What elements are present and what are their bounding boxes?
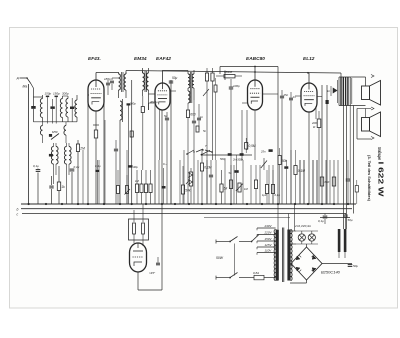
cathode resistor 200 (315, 106, 317, 119)
heater wires to lamps (290, 230, 296, 232)
svg-text:50k: 50k (282, 159, 288, 163)
bus line c (ground rail) (22, 213, 346, 215)
choke connect bottom (338, 252, 340, 258)
small cap mid (114, 148, 118, 150)
EL12 right side wire (317, 96, 322, 98)
cap between filters (71, 98, 73, 107)
EAF42 top plate wire (162, 71, 164, 83)
bridge DC output (322, 263, 352, 265)
svg-text:1M: 1M (135, 179, 140, 183)
EABC80 left side exit wire (242, 102, 248, 104)
right components row (299, 160, 301, 204)
cap near oscillator (51, 176, 53, 185)
small resistors left of EABC80 (205, 73, 208, 81)
output transformer bottom connection (339, 105, 366, 107)
svg-text:220V: 220V (264, 231, 273, 235)
power transformer secondary winding (287, 230, 290, 281)
IF2 secondary down wire (148, 96, 150, 110)
heater verticals above transformer (277, 204, 279, 229)
svg-text:0,1μ: 0,1μ (33, 164, 39, 168)
svg-text:110V: 110V (265, 249, 273, 253)
svg-text:0,8A: 0,8A (253, 271, 259, 275)
svg-text:1n: 1n (327, 89, 331, 93)
svg-text:1k: 1k (61, 185, 65, 189)
cap 1n right (289, 97, 293, 99)
svg-text:b: b (17, 208, 19, 212)
output transformer winding block (340, 77, 341, 106)
oscillator transformer B (64, 147, 66, 165)
boost cap diode (333, 88, 337, 93)
output transformer top connection (340, 73, 342, 77)
pot arrow 1M upper (263, 158, 265, 170)
svg-text:600: 600 (325, 180, 330, 184)
detector resistor 25k (214, 85, 217, 92)
cap 100p (229, 86, 233, 88)
padder resistor 2M (76, 144, 79, 152)
voltage selector taps (257, 227, 276, 229)
cap at magic eye (156, 262, 160, 264)
vacuum tube EABC80 (248, 80, 263, 110)
EAF42 grid wire (149, 93, 156, 95)
svg-text:50μ: 50μ (172, 76, 178, 80)
cap 0,1u left (37, 167, 39, 170)
volume potentiometer (190, 168, 192, 172)
svg-text:2×6,3V0,3A: 2×6,3V0,3A (294, 224, 311, 228)
svg-text:125V: 125V (265, 243, 273, 247)
oscillator transformer A (51, 147, 53, 165)
phono input terminals (188, 173, 193, 178)
EL12 screen wires (321, 85, 323, 204)
EABC80 diode wires (246, 110, 248, 150)
IF transformer 1 core (121, 72, 123, 92)
IF transformer 2 primary (143, 73, 145, 90)
svg-text:EAF42: EAF42 (156, 56, 171, 62)
mains switch pole 2 (215, 276, 217, 280)
svg-text:0,1μ: 0,1μ (95, 164, 101, 168)
speaker 1 terminals (371, 75, 374, 78)
EAF42 left exit 2 (149, 102, 156, 104)
speaker 2 wires (357, 108, 371, 110)
plate circuit top line 2 (225, 70, 233, 72)
coil below IF1 (120, 101, 122, 120)
speaker 2 (362, 118, 370, 132)
long B+ top line (126, 71, 341, 74)
resistor 5k (221, 170, 223, 184)
resistor under IF2 (141, 107, 144, 113)
IF transformer 3 core (190, 72, 192, 103)
EAF42 cathode down (161, 110, 163, 204)
bridge rectifier diamond (291, 247, 322, 280)
bridge AC input top (306, 244, 308, 247)
svg-text:50μ: 50μ (348, 218, 353, 222)
svg-text:0,1μ: 0,1μ (275, 193, 281, 197)
svg-text:100p: 100p (130, 102, 137, 106)
cap 2k300p dark (240, 153, 244, 156)
IF transformer 1 primary (119, 74, 121, 90)
EF43 plate top wire (95, 73, 97, 81)
EABC80 right vertical wire (277, 67, 279, 205)
lamp wiring (296, 230, 318, 232)
svg-text:30μ: 30μ (133, 165, 138, 169)
bridge AC input bottom (306, 280, 308, 283)
EABC80 cathode resistor (254, 110, 256, 160)
vacuum tube EAF42 (155, 83, 170, 110)
selector lever arm (252, 235, 260, 242)
primary bottom connect (276, 280, 278, 281)
screen wire EAF42 (154, 104, 156, 204)
cap on screen line (326, 100, 329, 104)
svg-text:0,1μ: 0,1μ (318, 219, 324, 223)
pot 1M lower (238, 183, 241, 192)
IF transformer 3 lower winding (188, 91, 190, 103)
resistor 0,1M (201, 150, 203, 163)
resistor 50k x183 (182, 166, 184, 185)
IF transformer 3 secondary (192, 74, 194, 88)
bridge diode 4 (312, 268, 316, 272)
resistor 0,1M right (294, 166, 297, 175)
cap 50u electrolytic (170, 80, 172, 90)
right row caps (346, 178, 350, 180)
output transformer down wires to field coil (343, 106, 345, 230)
magic eye bottom wire (138, 289, 162, 291)
EABC80 top wire (254, 67, 256, 81)
svg-text:c: c (17, 213, 19, 217)
left drop from top line (219, 67, 221, 75)
speaker 2 terminals (371, 137, 374, 140)
antenna cap lead upper (31, 84, 34, 89)
svg-text:5n: 5n (229, 171, 232, 175)
svg-text:0,1M: 0,1M (204, 166, 211, 170)
magic eye resistor box (129, 219, 149, 240)
EAF42 plate to IF3 (162, 70, 188, 72)
EL12 top wire (308, 73, 310, 83)
speaker 1 (362, 86, 370, 100)
oscillator cap dark (49, 154, 53, 157)
detector trimmer arrow (203, 89, 209, 96)
antenna series cap (31, 106, 36, 109)
resistor 8000 right (332, 177, 335, 186)
mains switch pole 1 (215, 240, 217, 244)
svg-text:2k+300p: 2k+300p (232, 158, 244, 162)
trimmer cap bar 1 (46, 96, 49, 98)
EF43 cathode wire (95, 111, 97, 125)
resistor x118 (117, 170, 119, 186)
svg-text:300p: 300p (62, 92, 69, 96)
IF1 tuning caps (110, 80, 114, 82)
fuse 0,8A (254, 275, 264, 279)
magic eye resistors (133, 223, 136, 234)
resistor x127 with pot arrow (126, 175, 128, 186)
antenna coil L1 (40, 99, 42, 118)
bus line b (21, 208, 352, 210)
coupling caps row (209, 174, 213, 176)
IF3 cap 0,1 (192, 120, 196, 122)
svg-text:0,5M: 0,5M (249, 144, 256, 148)
IF2 top feed wire (125, 71, 127, 75)
band coil lower winding 1 (40, 126, 42, 136)
power transformer core (281, 228, 283, 283)
cap 25n (280, 95, 284, 97)
EL12 cathode down (308, 112, 310, 204)
selector taps hooks (256, 228, 258, 230)
svg-text:600: 600 (190, 112, 196, 116)
band filter coil 4 (75, 100, 77, 117)
svg-text:EF43.: EF43. (88, 56, 101, 62)
small resistor right edge (355, 186, 358, 193)
svg-text:1n: 1n (200, 115, 204, 119)
svg-text:25n: 25n (283, 93, 289, 97)
resistor mid 1M (130, 131, 133, 137)
cap 25n dark (269, 149, 273, 152)
EF43 grid wire (88, 94, 89, 96)
screen bypass components (103, 90, 105, 204)
resistor 50k mid (278, 156, 281, 165)
svg-text:500p: 500p (220, 157, 226, 161)
svg-text:2M: 2M (79, 146, 85, 150)
IF transformer 1 secondary (124, 74, 126, 90)
dial lamp 2 (308, 234, 315, 241)
cap 500p dark (228, 153, 232, 156)
cap 50u at bridge (348, 264, 353, 266)
cap 5n dark (235, 170, 239, 173)
cap 30u dark mid (128, 165, 132, 167)
svg-text:A: A (16, 77, 20, 81)
band filter coil 3 (66, 99, 68, 118)
svg-text:(3. Teil des Schaltbildes): (3. Teil des Schaltbildes) (367, 155, 371, 201)
svg-text:180p: 180p (104, 77, 111, 81)
EAF42 right exit (170, 90, 176, 92)
antenna down wire (28, 84, 30, 204)
power transformer primary winding (276, 230, 279, 281)
IF transformer 3 primary (188, 74, 190, 88)
svg-text:100kΩ: 100kΩ (224, 70, 233, 74)
svg-text:1n: 1n (293, 95, 297, 99)
svg-text:C~: C~ (163, 162, 167, 166)
detector line y155 (202, 154, 253, 156)
EL12 grid coupling (295, 95, 301, 97)
wave band switch M50 (49, 134, 52, 137)
resistor 100k horizontal (224, 75, 235, 78)
transformer secondary return down (349, 106, 351, 205)
plate circuit top line 1 (220, 66, 278, 68)
trimmer cap bar 2 (55, 96, 58, 98)
cap 0,1u under bus (324, 214, 326, 216)
svg-text:50W: 50W (216, 256, 224, 260)
svg-text:100p: 100p (233, 84, 240, 88)
svg-text:5n: 5n (203, 129, 207, 133)
svg-text:B250C140: B250C140 (321, 270, 341, 275)
magic eye right wire (161, 204, 163, 290)
magic eye cathode down (137, 272, 139, 290)
EF43 cathode resistor (95, 125, 97, 130)
svg-text:5k: 5k (224, 187, 228, 191)
resistor 1k (58, 166, 60, 182)
IF3 resistor 600 (187, 103, 189, 110)
IF transformer 2 core (144, 71, 146, 92)
magic eye tube EM34 (130, 243, 147, 272)
bus line a (+HT rail) (21, 203, 356, 205)
filter bottom wire (33, 121, 77, 123)
detector switch lever (201, 154, 203, 156)
mid vertical with cap (52, 99, 54, 106)
svg-text:0,1μ: 0,1μ (74, 165, 80, 169)
cap 0,1u second (71, 167, 73, 169)
svg-text:150p: 150p (45, 92, 52, 96)
bus junction dots (28, 203, 30, 205)
svg-text:150V: 150V (265, 237, 273, 241)
svg-text:EL12: EL12 (303, 56, 315, 62)
svg-text:EM34: EM34 (134, 56, 147, 62)
cap dark mid right (284, 166, 288, 169)
resistor 600 right (320, 177, 323, 186)
svg-text:≈45°: ≈45° (149, 271, 156, 275)
bridge diode 1 (296, 256, 300, 260)
cap 180p (106, 82, 110, 84)
speaker return wire down (353, 106, 355, 214)
svg-text:50μ: 50μ (353, 264, 358, 268)
resistor right of IF1 (131, 80, 133, 204)
field coil choke bars (338, 229, 341, 252)
tone switch contacts (187, 150, 194, 154)
bus stub line d (204, 217, 290, 219)
cap 100p dark (127, 103, 131, 105)
detector cap 1n (197, 117, 201, 119)
svg-text:I 622 W: I 622 W (377, 162, 386, 198)
cap dark x163 (163, 168, 165, 186)
svg-text:1μ0: 1μ0 (262, 193, 267, 197)
svg-text:EABC80: EABC80 (246, 56, 265, 62)
bridge diode 3 (296, 267, 300, 271)
wire drops to bus (82, 150, 84, 204)
dial lamp 1 (298, 234, 305, 241)
cap 50u under bus (343, 214, 348, 216)
svg-text:150p: 150p (53, 92, 60, 96)
AGC resistor row (136, 170, 138, 184)
svg-text:40k3μ: 40k3μ (150, 100, 158, 104)
svg-text:Großsuper: Großsuper (377, 147, 382, 160)
resistor 0,5M upper (245, 143, 248, 150)
vacuum tube EL12 (301, 83, 317, 112)
EABC80 right side exit wire (263, 93, 279, 95)
band filter coil 2 (60, 99, 62, 118)
IF transformer 2 secondary (147, 73, 149, 90)
bridge diode 2 (312, 256, 316, 260)
switch link line (234, 244, 236, 276)
svg-text:Ma: Ma (23, 85, 28, 89)
svg-text:25n: 25n (260, 150, 266, 154)
band coil lower winding 2 (64, 126, 66, 136)
svg-text:M50: M50 (52, 130, 58, 134)
detector lower resistor (196, 126, 199, 132)
line under bus to filter (320, 217, 350, 219)
vacuum tube EF43 (88, 80, 104, 111)
svg-text:240V: 240V (264, 224, 273, 228)
resistors 1000 pair (265, 185, 268, 194)
antenna switch (26, 77, 28, 79)
row filler resistors (255, 165, 257, 180)
